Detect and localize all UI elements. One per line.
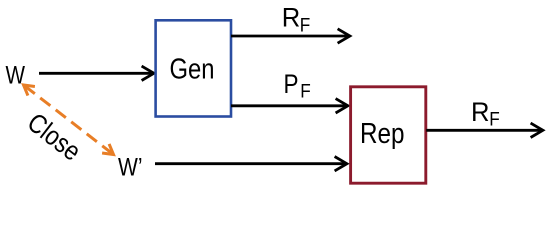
wire Rep to RF (right output) [426, 123, 543, 137]
svg-text:F: F [300, 15, 311, 36]
svg-text:R: R [282, 3, 301, 33]
wire Gen to RF (top output) [231, 29, 350, 43]
svg-text:P: P [284, 69, 299, 99]
dashed double arrow W to W' (Close) [24, 85, 114, 155]
box Rep [351, 87, 426, 183]
wire W' to Rep [155, 157, 347, 171]
svg-text:F: F [489, 110, 500, 131]
box Gen [156, 20, 231, 116]
svg-text:W’: W’ [118, 154, 143, 182]
svg-text:R: R [471, 97, 490, 127]
svg-text:Gen: Gen [170, 53, 215, 85]
svg-text:F: F [300, 82, 311, 103]
wire W to Gen [39, 66, 154, 80]
svg-text:Rep: Rep [360, 118, 405, 150]
wire Gen to Rep (PF) [231, 99, 348, 113]
